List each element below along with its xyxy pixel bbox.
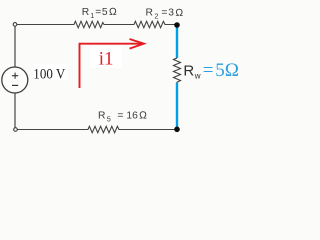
svg-text:R1=5Ω: R1=5Ω [82,7,117,20]
svg-text:100 V: 100 V [33,66,65,82]
svg-text:i1: i1 [99,49,114,70]
svg-text:=5Ω: =5Ω [203,60,239,81]
